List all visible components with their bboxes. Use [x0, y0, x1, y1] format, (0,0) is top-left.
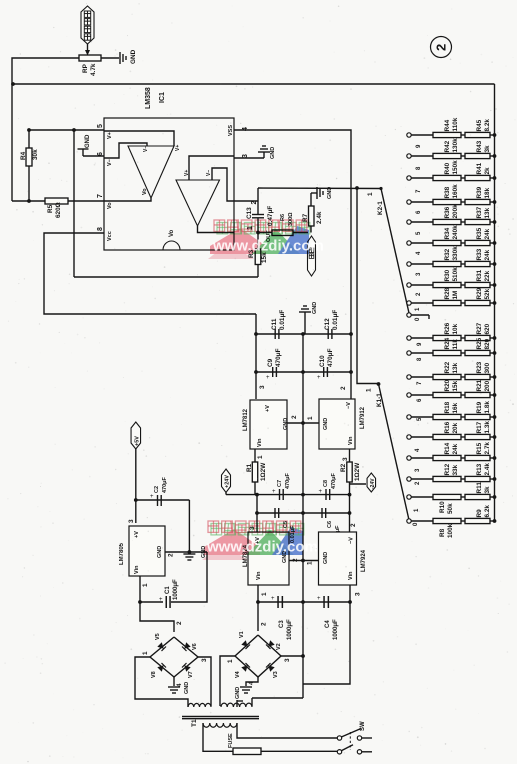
pin3 label 7924 [355, 592, 362, 596]
svg-text:R38: R38 [444, 186, 451, 198]
ground at 7805 [183, 546, 207, 560]
terminal -24V [350, 473, 376, 492]
svg-text:3: 3 [259, 385, 266, 389]
svg-text:1: 1 [367, 192, 374, 196]
wire right drop [303, 602, 350, 684]
svg-text:470μF: 470μF [327, 348, 334, 367]
svg-text:R33: R33 [476, 248, 483, 260]
svg-text:4.7k: 4.7k [90, 63, 97, 76]
resistor R14 and R15 rung [407, 442, 497, 461]
svg-text:VSS: VSS [228, 125, 234, 136]
svg-text:SW: SW [360, 721, 366, 731]
svg-text:7: 7 [97, 194, 104, 198]
svg-text:1Ω2W: 1Ω2W [260, 462, 267, 481]
svg-text:−V: −V [349, 537, 355, 544]
svg-text:R36: R36 [444, 206, 451, 218]
svg-text:R34: R34 [444, 227, 451, 239]
pin3 label 7805 [128, 519, 135, 523]
svg-text:V4: V4 [235, 670, 241, 678]
svg-text:13k: 13k [452, 362, 459, 373]
svg-text:R10: R10 [439, 501, 446, 513]
svg-text:R17: R17 [476, 421, 483, 433]
capacitor C11 [271, 310, 286, 339]
svg-text:11k: 11k [452, 339, 459, 350]
pin1 label 7812 [257, 455, 264, 459]
svg-text:3: 3 [342, 457, 349, 461]
svg-text:1M: 1M [452, 291, 459, 300]
regulator LM7912 box [319, 399, 366, 449]
wire R7 to ground [311, 193, 317, 206]
capacitor C9 [266, 348, 282, 381]
svg-text:470μF: 470μF [285, 472, 291, 489]
resistor R30 and R31 rung [407, 267, 497, 288]
svg-text:+: + [317, 596, 321, 602]
svg-text:2: 2 [261, 622, 268, 626]
svg-text:GND: GND [235, 687, 241, 699]
svg-text:1: 1 [227, 659, 234, 663]
contact 0 stub K2 [407, 313, 429, 319]
svg-text:V+: V+ [107, 132, 113, 139]
wire pin3 stub [234, 157, 264, 159]
svg-text:V2: V2 [276, 643, 282, 650]
svg-text:3k: 3k [484, 145, 491, 153]
junction out node [256, 231, 260, 235]
ground above C rail [299, 302, 318, 334]
junctions C11 rail [254, 332, 353, 336]
svg-text:R32: R32 [444, 248, 451, 260]
svg-text:2: 2 [291, 415, 298, 419]
wire feedback to R3 [74, 276, 258, 278]
svg-text:V8: V8 [151, 671, 157, 678]
svg-text:24k: 24k [484, 228, 491, 239]
svg-text:GND: GND [323, 552, 329, 564]
svg-text:R2: R2 [340, 463, 347, 472]
watermark lower [202, 521, 318, 560]
transformer core [182, 717, 259, 719]
bridge2 node labels [227, 622, 291, 685]
diode V6 [182, 642, 198, 651]
capacitor C10 [317, 348, 334, 381]
svg-text:R39: R39 [476, 186, 483, 198]
svg-text:R16: R16 [444, 421, 451, 433]
resistor R10 and R11 rung [407, 482, 497, 514]
switch K1-1 position digits [413, 342, 423, 526]
resistor R18 and R19 rung [407, 401, 497, 420]
svg-text:1000μF: 1000μF [333, 619, 339, 640]
svg-text:6.2k: 6.2k [484, 505, 491, 518]
wire pin5 rail [29, 129, 104, 131]
output terminal oval [308, 236, 316, 276]
wire fuse to SW [261, 750, 337, 752]
resistor R28 and R29 rung [407, 287, 497, 305]
svg-text:18k: 18k [484, 187, 491, 198]
resistor R38 and R39 rung [407, 184, 497, 205]
wire ac return [252, 698, 303, 706]
switch K1-1 wiper [366, 384, 410, 520]
ground at pin 6 [78, 134, 105, 156]
Vo bump on IC1 bottom [163, 229, 180, 250]
svg-text:Vo: Vo [142, 188, 148, 195]
svg-text:510k: 510k [452, 267, 459, 282]
svg-text:+: + [266, 375, 270, 381]
svg-text:+V: +V [265, 405, 271, 412]
wire bridge1 ac right [198, 657, 211, 706]
wire B output to pin1 [198, 226, 235, 233]
svg-text:R26: R26 [444, 322, 451, 334]
wire B inv step from pin2 [212, 168, 234, 201]
svg-text:0.01μF: 0.01μF [332, 310, 339, 330]
svg-text:200k: 200k [452, 204, 459, 219]
diode V8 [151, 663, 166, 678]
svg-text:R21: R21 [476, 379, 483, 391]
regulator LM7812 box [243, 400, 289, 449]
svg-text:+5V: +5V [135, 436, 141, 446]
svg-text:620: 620 [484, 323, 491, 334]
svg-text:R20: R20 [444, 379, 451, 391]
diode V4 [235, 663, 250, 678]
wire pin8 Vcc net [44, 233, 256, 314]
svg-text:1000μF: 1000μF [287, 619, 293, 640]
svg-text:50k: 50k [447, 503, 454, 514]
svg-text:R5: R5 [47, 204, 54, 213]
junctions C5C6 rail [255, 511, 351, 515]
ground at RP [120, 49, 137, 64]
capacitor C2 [150, 476, 168, 506]
svg-text:470μF: 470μF [275, 348, 282, 367]
resistor R16 and R17 rung [407, 421, 497, 440]
svg-text:8.2k: 8.2k [484, 119, 491, 132]
svg-text:GND: GND [130, 49, 137, 64]
pin 8 label [97, 227, 113, 241]
svg-text:FUSE: FUSE [228, 733, 234, 748]
wire +24 rail [226, 494, 303, 496]
wire top rail [12, 83, 495, 85]
pin2 label 7824 [292, 558, 299, 562]
svg-text:GND: GND [283, 418, 289, 430]
svg-text:13k: 13k [484, 207, 491, 218]
op-amp IC1 box [104, 118, 234, 250]
svg-text:C1: C1 [165, 586, 171, 594]
svg-text:1.8k: 1.8k [484, 401, 491, 414]
svg-text:2.7k: 2.7k [484, 442, 491, 455]
svg-text:R42: R42 [444, 140, 451, 152]
switch SW arms [341, 721, 366, 751]
wire ladder bus [494, 84, 496, 521]
svg-text:22k: 22k [484, 270, 491, 281]
svg-text:LM7924: LM7924 [361, 549, 367, 572]
wire pin6 step to A inv [104, 143, 147, 158]
resistor R2 [340, 449, 361, 494]
svg-text:LM7812: LM7812 [243, 408, 249, 431]
wire 7805 out [138, 576, 174, 632]
svg-text:www.dzdiy.com: www.dzdiy.com [212, 238, 324, 255]
svg-text:www.dzdiy.com: www.dzdiy.com [206, 539, 318, 556]
resistor R42 and R43 rung [407, 138, 497, 159]
svg-text:+: + [159, 597, 163, 603]
pin 4 label [228, 125, 249, 136]
resistor R32 and R33 rung [407, 246, 497, 267]
pin2 label 7924 [350, 523, 357, 527]
svg-text:R24: R24 [444, 337, 451, 349]
svg-text:C10: C10 [319, 355, 326, 367]
wire bridge1 gnd [173, 677, 175, 686]
diode V7 [182, 663, 194, 678]
ground at bridge1 [168, 682, 190, 694]
terminal +24V [222, 469, 231, 495]
contact K1 wiper origin [377, 382, 381, 386]
junction [27, 128, 76, 132]
wire C5C6 rail [257, 512, 350, 514]
svg-text:2: 2 [168, 553, 175, 557]
resistor R12 and R13 rung [407, 463, 497, 482]
pin2 label 7805 [168, 553, 175, 557]
svg-text:2: 2 [176, 621, 183, 625]
svg-text:R9: R9 [476, 509, 483, 518]
svg-text:R43: R43 [476, 140, 483, 152]
wire pin7 rail [12, 200, 104, 202]
svg-text:R28: R28 [444, 287, 451, 299]
label OUT [266, 230, 272, 242]
op-amp A triangle [128, 145, 181, 198]
pin1 label 7824 [261, 592, 268, 596]
svg-text:C11: C11 [271, 318, 278, 330]
svg-text:1000μF: 1000μF [173, 579, 179, 600]
wire SW right stubs [362, 738, 372, 752]
svg-text:2.4k: 2.4k [316, 211, 323, 224]
wire primary right to SW [237, 723, 337, 738]
figure number 2 circled [431, 37, 452, 58]
wire left vert to 7812 [255, 314, 257, 399]
svg-text:Vin: Vin [348, 571, 354, 580]
svg-text:24k: 24k [484, 249, 491, 260]
svg-text:R27: R27 [476, 322, 483, 334]
wire 7824 out [257, 585, 259, 631]
svg-text:C3: C3 [279, 620, 285, 628]
pin 3 label [242, 154, 249, 158]
svg-text:R11: R11 [476, 482, 483, 494]
junctions 24 rails [255, 493, 351, 497]
wire A output to pin7 [104, 198, 151, 201]
svg-text:R41: R41 [476, 162, 483, 174]
resistor R44 and R45 rung [407, 117, 497, 137]
svg-text:R29: R29 [476, 287, 483, 299]
svg-text:K2-1: K2-1 [377, 201, 384, 215]
svg-text:GND: GND [270, 147, 276, 159]
resistor R6 [272, 212, 294, 236]
regulator LM7824 box [243, 532, 289, 585]
wire bridge1 ac left [135, 657, 188, 707]
node label oval (multimeter terminal) [81, 6, 94, 44]
wire bridge2 ac left [220, 656, 235, 706]
resistor R4 [20, 130, 39, 201]
svg-text:160k: 160k [452, 184, 459, 199]
svg-text:24k: 24k [452, 443, 459, 454]
transformer secondary B [221, 703, 252, 707]
wire RP right to ground [101, 57, 119, 59]
wire bridge2 gnd [246, 677, 258, 686]
wire C11 rail [256, 333, 351, 335]
wire K1 feed vertical [357, 188, 379, 384]
svg-text:20k: 20k [452, 422, 459, 433]
resistor R8 and R9 rung [407, 505, 497, 538]
capacitor C8 [319, 472, 338, 500]
capacitor C4 [317, 596, 339, 640]
svg-text:-24V: -24V [370, 478, 376, 489]
wire C1 loop [140, 552, 207, 602]
svg-text:Vin: Vin [256, 571, 262, 580]
capacitor C13 [246, 206, 274, 226]
svg-text:V−: V− [143, 146, 149, 152]
svg-text:R18: R18 [444, 401, 451, 413]
svg-text:R44: R44 [444, 119, 451, 131]
svg-text:GND: GND [85, 134, 91, 148]
bridge V1-V4 diamond [235, 635, 281, 677]
svg-text:Vin: Vin [257, 438, 263, 447]
resistor R24 and R25 rung [407, 337, 497, 355]
wire C2 right to gnd [188, 500, 190, 552]
svg-text:10k: 10k [452, 323, 459, 334]
wire 7824 feed [256, 495, 258, 532]
resistor R3 [248, 233, 268, 278]
svg-text:GND: GND [323, 418, 329, 430]
svg-text:1: 1 [307, 416, 314, 420]
svg-text:R7: R7 [302, 213, 309, 222]
svg-text:330k: 330k [452, 246, 459, 261]
pin 1 label [247, 226, 254, 230]
svg-text:+24V: +24V [225, 475, 231, 488]
svg-text:C13: C13 [246, 207, 253, 219]
resistor R5 [45, 198, 68, 218]
resistor R1 [246, 449, 267, 494]
svg-text:T1: T1 [191, 719, 198, 727]
junctions C9 rail [254, 370, 353, 374]
regulator LM7805 box [119, 526, 165, 576]
svg-text:3: 3 [355, 592, 362, 596]
wire wiper arrow to RP [85, 44, 90, 56]
svg-text:2k: 2k [484, 167, 491, 175]
svg-text:R31: R31 [476, 269, 483, 281]
resistor R20 and R21 rung [407, 379, 497, 397]
svg-text:3: 3 [284, 658, 291, 662]
svg-text:470μF: 470μF [331, 472, 337, 489]
pin2 label 7812 [291, 415, 298, 419]
svg-text:R15: R15 [476, 442, 483, 454]
diode V2 [266, 640, 282, 650]
wire left rail [11, 84, 13, 201]
pin1 label 7912 [307, 416, 314, 420]
junction on K2 line [355, 186, 359, 190]
svg-text:1: 1 [142, 651, 149, 655]
svg-text:V+: V+ [175, 145, 181, 151]
fuse FUSE [228, 733, 261, 755]
pin 7 label [97, 194, 113, 209]
svg-text:130k: 130k [452, 138, 459, 153]
svg-text:+: + [271, 596, 275, 602]
resistor R22 and R23 rung [407, 361, 497, 379]
svg-text:52k: 52k [484, 288, 491, 299]
svg-text:C7: C7 [277, 480, 283, 487]
switch K2-1 position digits [415, 144, 422, 321]
wire 7805 gnd [165, 550, 207, 554]
capacitor C6 [321, 508, 341, 543]
wire K2-1 line [258, 187, 381, 190]
pin 5 label [97, 124, 113, 139]
capacitor C1 [159, 579, 179, 608]
svg-text:240k: 240k [452, 225, 459, 240]
capacitor C7 [272, 472, 291, 500]
svg-text:8: 8 [97, 227, 104, 231]
wire out line [258, 232, 308, 234]
svg-text:Vcc: Vcc [107, 231, 113, 241]
svg-text:Vin: Vin [348, 436, 354, 445]
pin 2 label [251, 201, 258, 205]
wire K2 feed top [257, 188, 259, 214]
svg-text:R23: R23 [476, 361, 483, 373]
ground centre tap [237, 700, 243, 702]
svg-text:R1: R1 [246, 463, 253, 472]
svg-text:1: 1 [366, 388, 373, 392]
svg-text:33k: 33k [452, 464, 459, 475]
svg-text:Vin: Vin [134, 565, 140, 574]
svg-text:0.01μF: 0.01μF [279, 310, 286, 330]
wire pin5 to A noninv [104, 131, 174, 146]
svg-text:30k: 30k [32, 149, 39, 160]
svg-text:1: 1 [257, 455, 264, 459]
svg-text:RP: RP [82, 63, 89, 73]
svg-text:R35: R35 [476, 227, 483, 239]
svg-text:LM358: LM358 [145, 87, 152, 109]
ground at pin 3 [258, 146, 276, 159]
svg-text:R22: R22 [444, 361, 451, 373]
svg-text:15k: 15k [452, 380, 459, 391]
capacitor C3 [271, 596, 293, 640]
svg-text:470μF: 470μF [162, 476, 168, 493]
pin2 label 7912 [340, 386, 347, 390]
svg-text:V−: V− [206, 170, 212, 176]
svg-text:1: 1 [307, 561, 314, 565]
label node 2 bridge1 [176, 621, 183, 625]
bridge1 node labels [142, 651, 208, 687]
ground at bridge2 [235, 687, 252, 699]
svg-text:620Ω: 620Ω [55, 202, 62, 218]
svg-text:+: + [150, 494, 154, 500]
svg-text:V7: V7 [188, 671, 194, 678]
svg-text:IC1: IC1 [159, 92, 166, 103]
svg-text:R13: R13 [476, 463, 483, 475]
wire centre gnd bus [302, 334, 304, 698]
pin3 label 7912 [342, 457, 349, 461]
resistor R26 and R27 rung [407, 322, 497, 340]
svg-text:150k: 150k [452, 160, 459, 175]
wire C3C4 rail [258, 601, 350, 603]
svg-text:V6: V6 [192, 643, 198, 650]
svg-text:1.3k: 1.3k [484, 421, 491, 434]
wire -24 rail [303, 494, 350, 496]
svg-text:Vo: Vo [107, 202, 113, 209]
bridge V5-V8 diamond [150, 637, 198, 677]
switch K2-1 wiper [367, 187, 409, 313]
watermark upper [208, 220, 324, 259]
wire C9 rail [256, 371, 351, 373]
potentiometer RP [79, 55, 101, 76]
svg-text:R45: R45 [476, 119, 483, 131]
wire C13 to out node [257, 218, 259, 233]
svg-text:R8: R8 [439, 528, 446, 537]
terminal +5V [131, 422, 141, 449]
switch SW contacts [337, 736, 361, 754]
junction [27, 199, 31, 203]
transformer primary [191, 719, 237, 727]
